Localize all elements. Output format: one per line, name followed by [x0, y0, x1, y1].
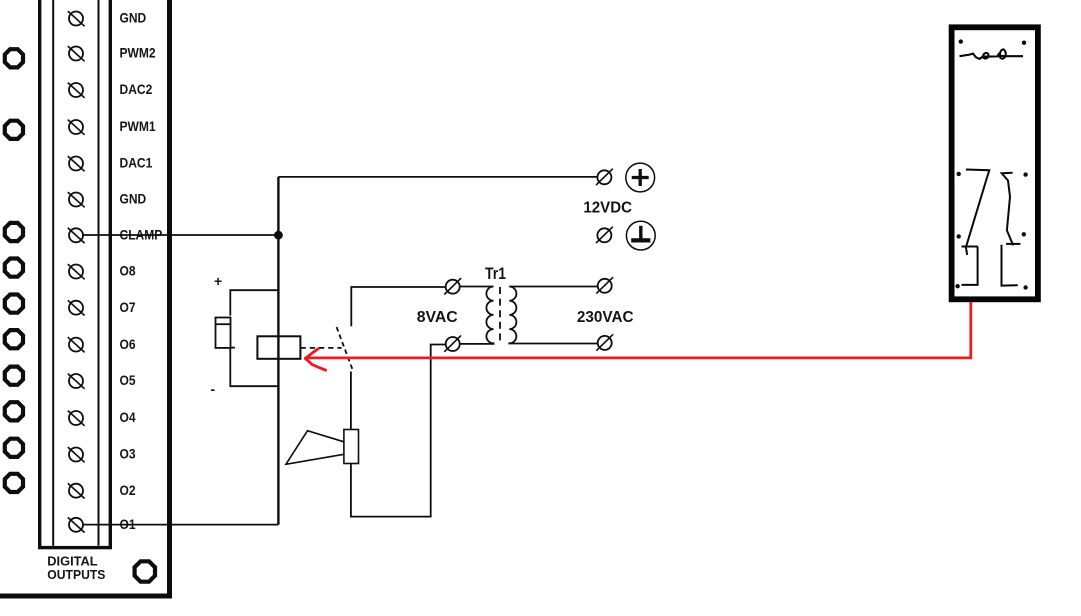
screw terminal O6	[69, 338, 83, 352]
svg-text:O8: O8	[120, 263, 136, 279]
screw terminal O7	[69, 301, 83, 315]
screw terminal PWM2	[69, 47, 83, 61]
svg-text:O3: O3	[120, 446, 136, 462]
red wire from relay module	[306, 302, 971, 358]
relay module pin dot 3	[957, 172, 961, 176]
junction dot	[274, 231, 283, 240]
screw terminal O5	[69, 374, 83, 388]
relay module pin dot 2	[1022, 41, 1026, 45]
buzzer LS1 horn	[286, 431, 344, 465]
relay module pin dot 7	[955, 284, 959, 288]
mechanical link dashed	[301, 347, 342, 349]
transformer Tr1 secondary winding	[509, 287, 598, 344]
svg-text:Tr1: Tr1	[485, 264, 506, 283]
svg-text:GND: GND	[120, 191, 147, 207]
screw terminal DAC1	[69, 157, 83, 171]
screw terminal 12VDC earth	[597, 228, 611, 242]
wire to 12VDC plus terminal	[278, 176, 597, 178]
svg-text:8VAC: 8VAC	[417, 309, 458, 326]
svg-text:PWM1: PWM1	[120, 118, 156, 134]
relay module pin dot 6	[1022, 232, 1026, 236]
screw terminal GND	[69, 193, 83, 207]
mounting hole H6	[5, 330, 23, 348]
switch lower lead	[350, 372, 352, 430]
svg-text:O2: O2	[120, 482, 136, 498]
mounting hole H3	[5, 223, 23, 241]
terminal strip left rail	[52, 0, 54, 546]
earth symbol	[626, 221, 655, 250]
screw terminal O2	[69, 484, 83, 498]
svg-text:O6: O6	[120, 336, 136, 352]
mounting hole H5	[5, 295, 23, 313]
outer I/O module box	[0, 0, 170, 596]
battery B1	[216, 318, 236, 348]
svg-text:-: -	[211, 381, 216, 397]
wire main vertical	[277, 177, 279, 525]
screw terminal O4	[69, 411, 83, 425]
svg-text:DAC2: DAC2	[120, 81, 153, 97]
buzzer LS1 body	[344, 430, 359, 464]
screw terminal PWM1	[69, 120, 83, 134]
screw terminal O1	[69, 518, 83, 532]
screw terminal 8VAC bottom	[446, 337, 460, 351]
relay module pin dot 5	[957, 234, 961, 238]
screw terminal O3	[69, 448, 83, 462]
svg-text:O7: O7	[120, 299, 136, 315]
mounting hole bottom	[135, 561, 155, 581]
mounting hole H10	[5, 474, 23, 492]
svg-text:12VDC: 12VDC	[583, 199, 632, 216]
terminal strip outer box	[40, 0, 111, 548]
relay module pin dot 8	[1023, 285, 1027, 289]
svg-text:+: +	[214, 273, 222, 289]
screw terminal O8	[69, 265, 83, 279]
screw terminal 230VAC top	[598, 279, 612, 293]
red arrowhead upper barb	[305, 349, 318, 359]
mounting hole H2	[5, 121, 23, 139]
screw terminal 8VAC top	[446, 280, 460, 294]
wire battery branch bottom	[230, 348, 277, 386]
wire buzzer loop	[351, 345, 446, 517]
relay module coil scribble	[960, 49, 1024, 59]
mounting hole H4	[5, 259, 23, 277]
screw terminal CLAMP	[69, 228, 83, 242]
svg-text:O4: O4	[120, 409, 136, 425]
transformer Tr1 core	[499, 287, 501, 344]
relay coil K1	[257, 336, 300, 359]
wire screw to primary	[460, 286, 494, 288]
relay module box	[952, 27, 1038, 299]
screw terminal 230VAC bottom	[598, 336, 612, 350]
svg-text:DAC1: DAC1	[120, 155, 153, 171]
relay module right contact	[1002, 173, 1021, 286]
switch blade dashed	[337, 327, 353, 370]
svg-text:230VAC: 230VAC	[577, 309, 634, 326]
relay module pin dot 1	[959, 39, 963, 43]
red arrowhead lower barb	[305, 358, 325, 370]
screw terminal GND	[69, 12, 83, 26]
svg-text:PWM2: PWM2	[120, 45, 156, 61]
svg-text:GND: GND	[120, 10, 147, 26]
mounting hole H9	[5, 439, 23, 457]
wire secondary top to screw	[509, 286, 598, 288]
wire battery branch top	[230, 290, 277, 315]
terminal strip right rail	[98, 0, 100, 546]
wire CLAMP to junction	[83, 234, 279, 236]
mounting hole H7	[5, 367, 23, 385]
relay module left contact	[962, 170, 990, 285]
mounting hole H1	[5, 49, 23, 67]
wire O1	[83, 524, 279, 526]
screw terminal DAC2	[69, 83, 83, 97]
relay module pin dot 4	[1023, 172, 1027, 176]
screw terminal 12VDC plus	[597, 170, 611, 184]
switch upper lead	[351, 287, 446, 326]
plus symbol	[626, 163, 655, 192]
mounting hole H8	[5, 402, 23, 420]
transformer Tr1 primary winding	[460, 287, 494, 344]
svg-text:O5: O5	[120, 372, 136, 388]
svg-text:OUTPUTS: OUTPUTS	[47, 567, 105, 582]
